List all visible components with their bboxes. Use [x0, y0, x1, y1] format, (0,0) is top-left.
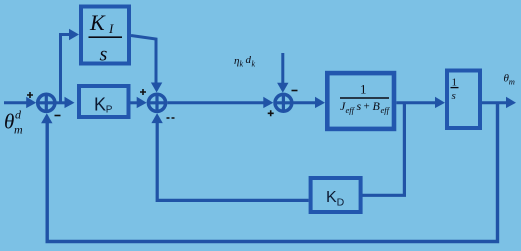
svg-text:m: m	[14, 123, 23, 137]
svg-text:K: K	[326, 189, 337, 206]
svg-text:+: +	[364, 101, 370, 113]
svg-text:s: s	[452, 90, 456, 102]
svg-text:I: I	[108, 21, 114, 36]
svg-text:k: k	[252, 60, 256, 69]
svg-text:k: k	[240, 60, 244, 69]
svg-text:B: B	[373, 99, 381, 113]
svg-text:D: D	[337, 196, 345, 208]
svg-text:m: m	[509, 76, 515, 86]
svg-text:K: K	[94, 95, 106, 115]
svg-text:s: s	[357, 99, 362, 113]
svg-text:d: d	[15, 108, 22, 122]
svg-text:1: 1	[452, 77, 458, 89]
svg-text:s: s	[100, 44, 108, 66]
svg-text:K: K	[89, 10, 106, 35]
svg-text:1: 1	[360, 82, 367, 97]
svg-text:θ: θ	[4, 110, 14, 134]
svg-text:P: P	[106, 105, 113, 116]
